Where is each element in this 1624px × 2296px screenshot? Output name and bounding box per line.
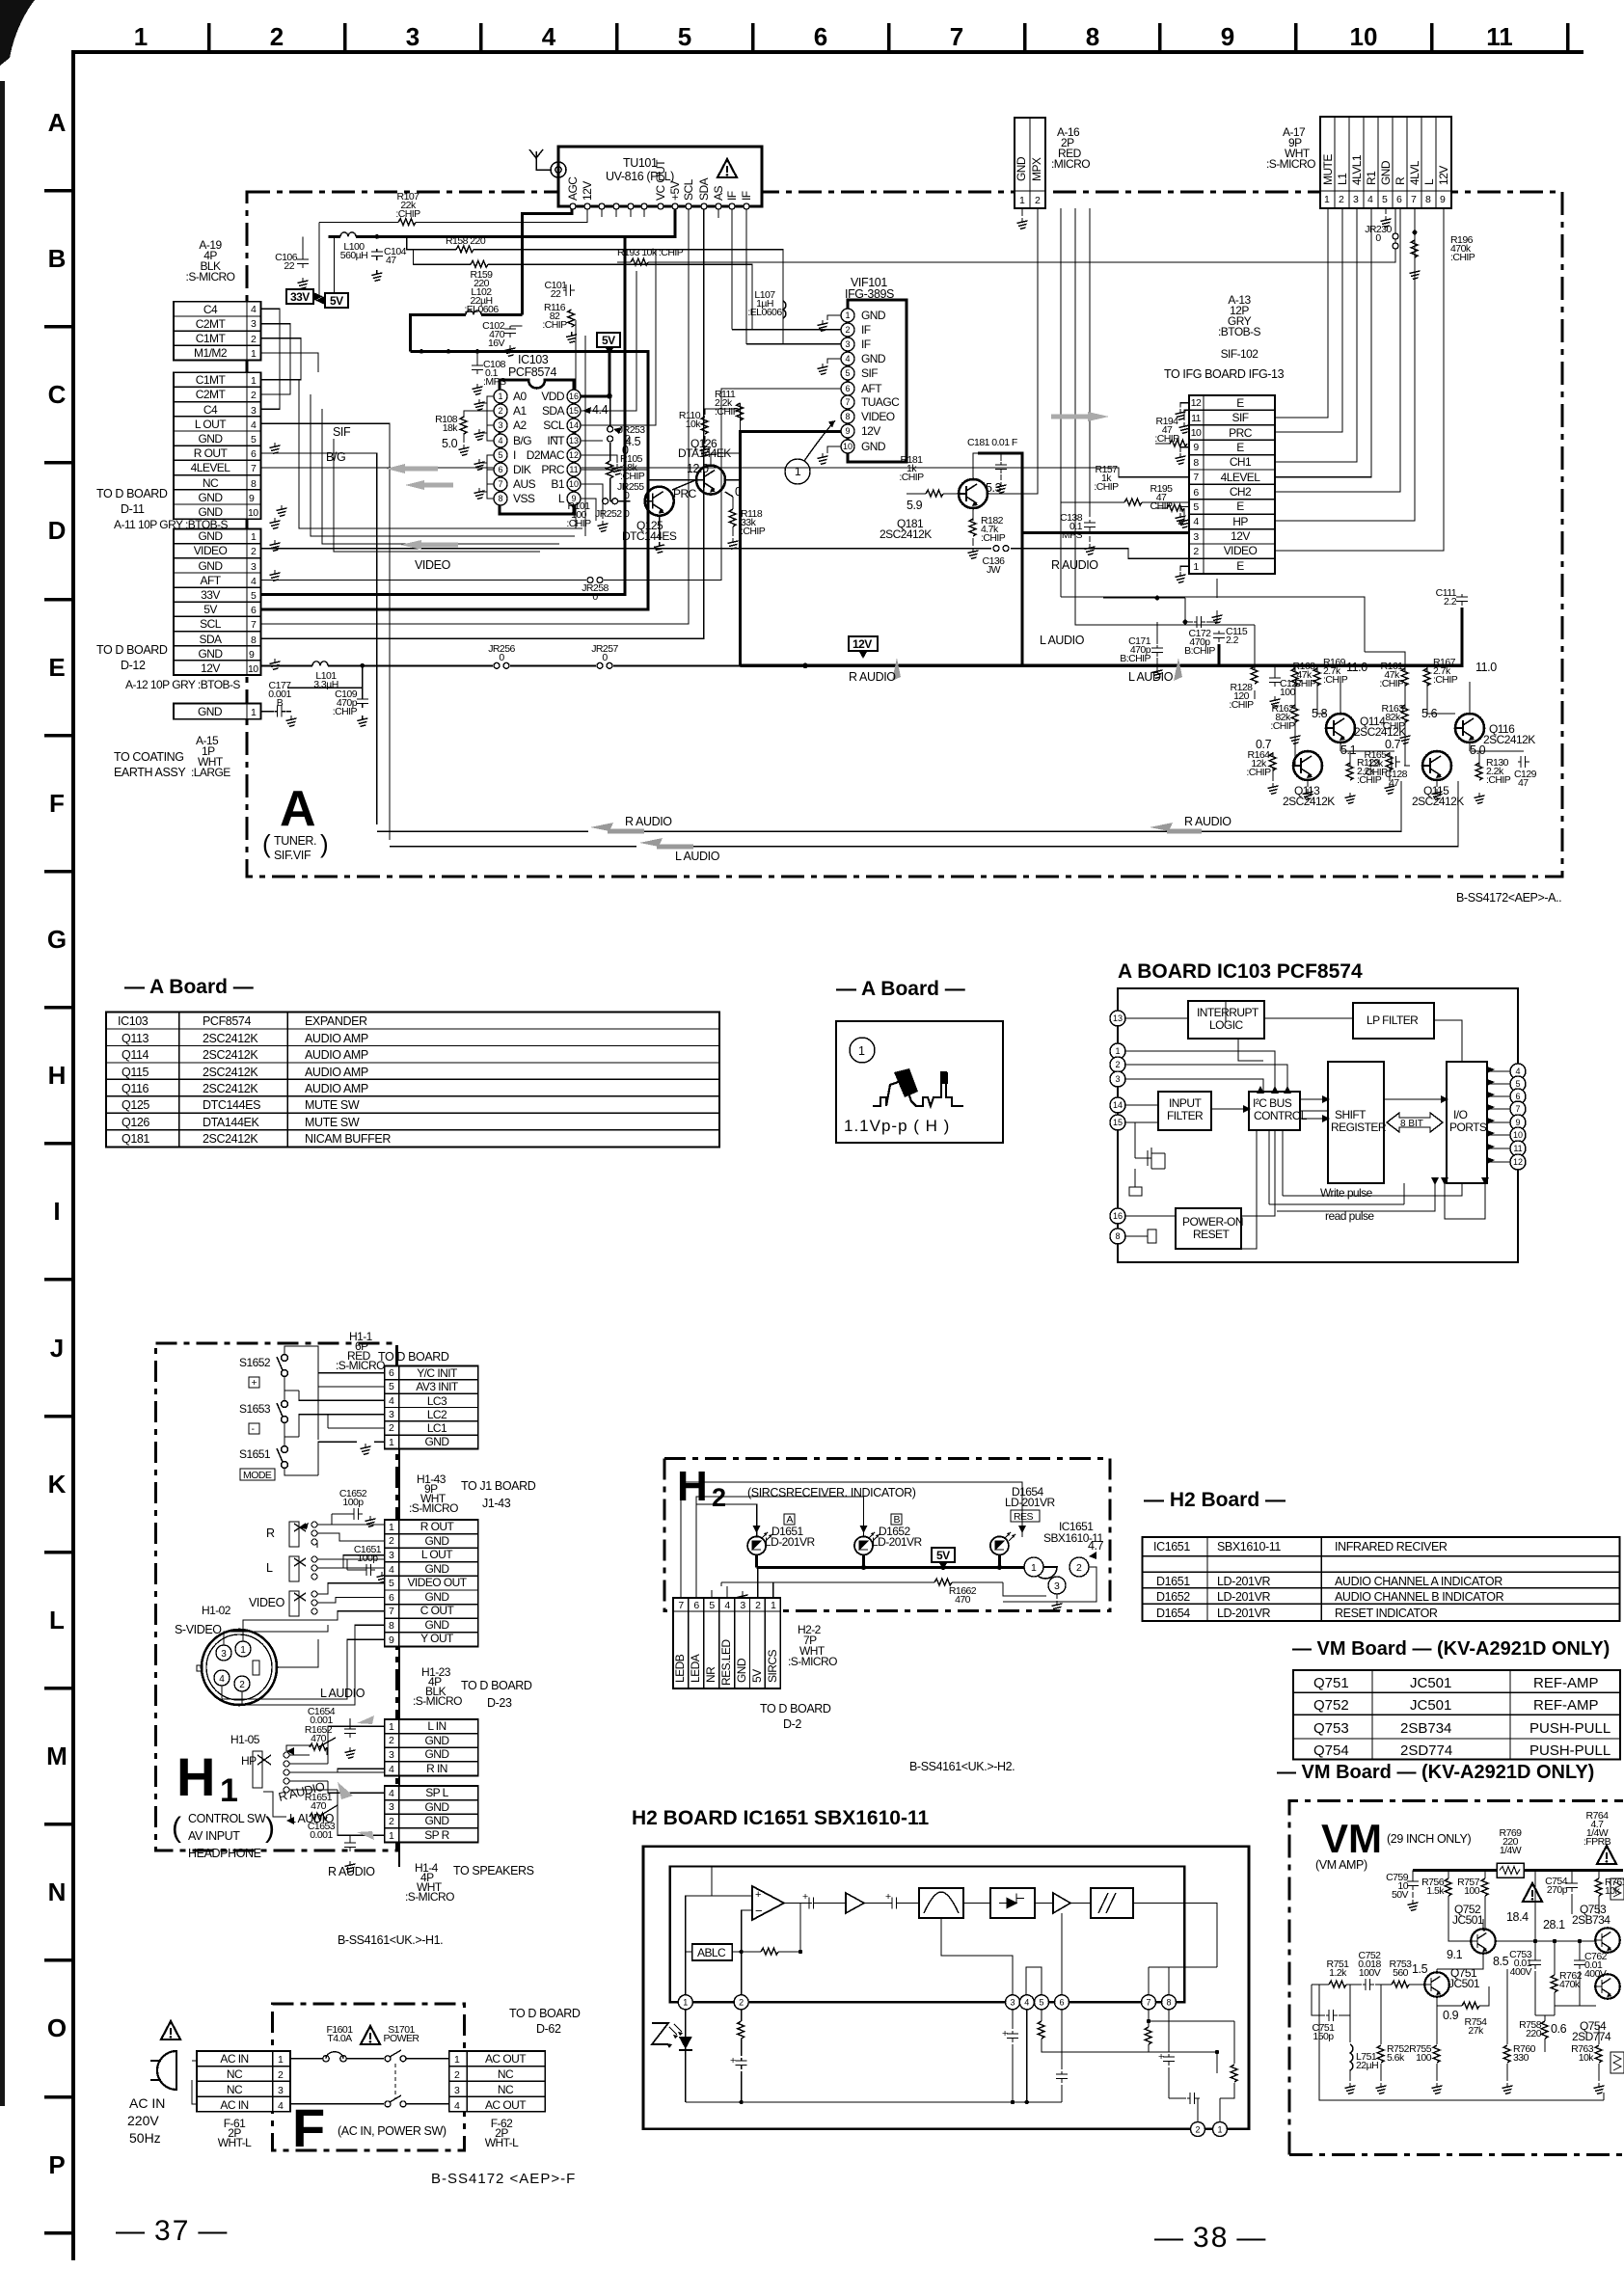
svg-text:IC103: IC103 [518,353,549,366]
svg-text:2: 2 [1339,194,1344,205]
wire R OUT return [261,453,588,831]
svg-text:100p: 100p [342,1497,364,1508]
svg-text:TO D BOARD: TO D BOARD [509,2007,581,2020]
svg-text:7: 7 [1411,194,1417,205]
svg-text:D-12: D-12 [121,659,146,672]
svg-text:E: E [1236,559,1244,573]
wire R audio return [629,781,1401,831]
svg-text:A-12 10P GRY :BTOB-S: A-12 10P GRY :BTOB-S [125,678,240,691]
svg-text:EXPANDER: EXPANDER [305,1014,367,1028]
grey signal SIF arrow [1051,412,1109,421]
svg-text:GND: GND [861,309,886,322]
connector SP stack [385,1786,478,1842]
svg-text:DTC144ES: DTC144ES [203,1098,260,1112]
svg-text:4: 4 [389,1764,394,1775]
svg-text:2: 2 [739,1998,744,2008]
svg-text:4: 4 [389,1395,394,1407]
connector A-17 [1320,117,1451,208]
svg-text:LEDB: LEDB [673,1654,687,1683]
wire PRC ladder [1275,208,1342,432]
svg-text:4LVL1: 4LVL1 [1350,154,1364,185]
svg-text::CHIP: :CHIP [741,526,766,537]
svg-text:A2: A2 [513,419,527,432]
svg-text:2SC2412K: 2SC2412K [203,1082,258,1095]
svg-text:TO IFG BOARD IFG-13: TO IFG BOARD IFG-13 [1164,367,1285,381]
svg-text:1: 1 [845,311,850,320]
svg-text:1: 1 [1217,2125,1222,2135]
svg-text:GND: GND [861,352,886,365]
svg-text:LP FILTER: LP FILTER [1367,1013,1419,1027]
svg-text:O: O [47,2013,67,2042]
svg-text:CH1: CH1 [1230,455,1252,469]
svg-text::S-MICRO: :S-MICRO [405,1890,454,1904]
svg-text:B:CHIP: B:CHIP [1120,653,1150,664]
wire AFT run [261,389,841,581]
wire 5V left riser [334,236,336,293]
connector H1-1 stack [385,1366,478,1449]
svg-text:8: 8 [389,1620,394,1632]
svg-text:SHIFT: SHIFT [1335,1108,1367,1121]
svg-text:E: E [1236,396,1244,410]
transistor Q115 [1422,751,1451,780]
svg-text:8: 8 [1086,22,1099,51]
IC1651 pins [678,1995,1176,2010]
svg-text:5: 5 [709,1600,715,1611]
wire NR line [1061,208,1103,597]
svg-text:JW: JW [987,564,1001,576]
svg-text:100p: 100p [357,1553,378,1564]
svg-text:R IN: R IN [426,1762,447,1775]
resistor R169 [1313,668,1320,686]
capacitor C759 [1412,1871,1414,1899]
svg-text:LEDA: LEDA [689,1654,702,1683]
svg-text::CHIP: :CHIP [1246,767,1271,778]
capacitor C128 [1389,756,1400,768]
buffer amp 1 [846,1893,864,1913]
svg-text:3: 3 [845,339,850,349]
wire R157 run [1061,502,1189,542]
svg-text:IF: IF [740,191,753,201]
svg-text:G: G [47,925,67,954]
svg-text:H2 BOARD IC1651 SBX1610-11: H2 BOARD IC1651 SBX1610-11 [632,1807,929,1829]
svg-text:JC501: JC501 [1410,1675,1451,1691]
svg-text:GND: GND [198,432,223,446]
svg-text:Q115: Q115 [122,1066,149,1079]
svg-text:400V: 400V [1510,1966,1532,1978]
badge 33V [286,289,313,304]
svg-text:15: 15 [569,406,579,416]
svg-text:D1652: D1652 [1156,1590,1190,1604]
led D1652 [854,1536,873,1554]
svg-text:9: 9 [845,426,850,436]
resistor R161 [1401,668,1408,686]
svg-text:NC: NC [227,2083,243,2096]
svg-text:12V: 12V [1231,529,1250,543]
svg-text:3: 3 [389,1749,394,1761]
resistor R111 [737,403,744,420]
resistor R196 [1411,240,1418,257]
svg-text:AUDIO AMP: AUDIO AMP [305,1032,368,1045]
svg-text:D-62: D-62 [536,2022,561,2036]
wire control bundle 2 [311,394,575,536]
svg-text:R AUDIO: R AUDIO [849,670,896,684]
resistor R757 [1484,1871,1486,1931]
svg-text:0: 0 [592,591,598,603]
capacitor C1653 [308,1821,336,1841]
wire audio feeds [1075,208,1255,659]
svg-text::S-MICRO: :S-MICRO [409,1501,458,1515]
svg-text:GND: GND [424,1734,449,1747]
wire AGC feed [523,206,572,314]
svg-text:3: 3 [221,1649,227,1660]
svg-text:8: 8 [845,412,850,421]
svg-text:3: 3 [454,2085,460,2096]
connector A-15 [174,704,261,719]
switch S1701 pole2 [290,2103,384,2105]
svg-text:7: 7 [1193,472,1199,483]
svg-text:5V: 5V [602,334,615,347]
connector H1-43 stack [385,1520,478,1646]
svg-text:2: 2 [389,1422,394,1434]
wire R118 drop [725,492,733,536]
svg-text:6: 6 [814,22,827,51]
svg-text:2: 2 [1193,546,1199,557]
svg-text:2SB734: 2SB734 [1572,1913,1610,1927]
svg-text:SIF: SIF [861,366,878,380]
VM dashed border [1289,1800,1623,2154]
svg-text:2: 2 [498,406,502,416]
svg-text:6: 6 [693,1600,699,1611]
svg-text:C181 0.01 F: C181 0.01 F [967,437,1017,448]
audio right wires [1390,665,1524,787]
wire 12V to A-13 [1022,531,1189,534]
svg-text:VIDEO: VIDEO [861,410,895,423]
svg-text:470: 470 [311,1800,327,1812]
coupling cap 2 [889,1898,901,1909]
svg-text:4: 4 [389,1564,394,1576]
svg-text:E: E [1236,500,1244,513]
svg-text:10k: 10k [1579,2052,1595,2064]
svg-text:+5V: +5V [668,180,682,201]
svg-text:B: B [48,244,67,273]
svg-text:R158 220: R158 220 [446,235,486,247]
svg-text:VSS: VSS [513,492,535,505]
pin3 cap [1012,2010,1014,2102]
ruler top line [71,50,1583,54]
svg-text::CHIP: :CHIP [1363,767,1388,778]
bandpass box [919,1888,963,1918]
resistor R162 [1291,705,1298,722]
svg-text:1.2k: 1.2k [1329,1967,1347,1979]
svg-text::CHIP: :CHIP [333,706,358,717]
svg-text:−: − [755,1904,763,1918]
svg-text:SP R: SP R [424,1828,449,1842]
svg-text:6: 6 [1193,487,1199,499]
warning triangle VM [1523,1883,1542,1902]
svg-text:AFT: AFT [200,574,221,587]
svg-text:11.0: 11.0 [1475,661,1497,674]
IC103 diagram outer box [1118,988,1518,1262]
svg-text::S-MICRO: :S-MICRO [788,1655,837,1668]
wire C1MT link [261,338,301,380]
connector A-15 label [191,734,230,779]
svg-text:HEADPHONE: HEADPHONE [188,1847,261,1860]
svg-text:5.0: 5.0 [442,437,458,450]
svg-text:9: 9 [1440,194,1446,205]
capacitor C181 [995,462,1007,473]
svg-text:GND: GND [424,1814,449,1827]
resistor R101 [566,500,591,529]
svg-text:Q126: Q126 [122,1116,149,1129]
svg-text:5: 5 [1193,501,1199,513]
capacitor C1654 [308,1706,336,1726]
expander IC103 [500,353,574,514]
feedback resistor [761,1948,778,1955]
svg-text:9: 9 [1515,1118,1520,1127]
svg-text:AUDIO CHANNEL B INDICATOR: AUDIO CHANNEL B INDICATOR [1335,1590,1504,1604]
svg-text:1: 1 [771,1600,776,1611]
svg-text:Write pulse: Write pulse [1320,1186,1373,1200]
svg-text:D1654: D1654 [1156,1607,1190,1620]
svg-text:J: J [50,1334,64,1363]
wire IF to VIF pins [746,299,841,344]
shift register box [1328,1062,1384,1183]
capacitor C172 [1194,616,1205,628]
IC1651 internal wires [686,1866,1217,1995]
svg-text:B-SS4161<UK.>-H2.: B-SS4161<UK.>-H2. [909,1760,1015,1773]
svg-text:9: 9 [249,649,255,661]
svg-text:4LEVEL: 4LEVEL [1221,471,1261,484]
svg-text:NICAM BUFFER: NICAM BUFFER [305,1132,391,1146]
resistor R164 [1269,753,1276,770]
svg-text:GND: GND [424,1747,449,1761]
svg-text:NC: NC [498,2067,514,2081]
svg-text:2SB734: 2SB734 [1400,1720,1451,1737]
pin7 network [1149,2010,1234,2083]
svg-text:CHIP: CHIP [1150,500,1173,512]
svg-text:L AUDIO: L AUDIO [1040,634,1085,647]
wire main B+ run [329,209,675,236]
wire C177 run [261,665,363,711]
coupling cap 1 [806,1898,818,1909]
svg-text:10: 10 [843,442,853,451]
svg-text:13: 13 [569,436,579,446]
resistor R130 [1475,763,1482,780]
svg-text:— 38 —: — 38 — [1154,2222,1267,2254]
resistor R159 [471,260,488,267]
svg-text:D: D [48,516,67,545]
antenna connector [551,162,566,177]
svg-text:P: P [48,2150,65,2179]
svg-text:PCF8574: PCF8574 [203,1014,251,1028]
resistor R755 [1433,2045,1440,2063]
wire Q125 collector [659,516,661,540]
transistor Q752 [1471,1929,1496,1954]
svg-text:D2MAC: D2MAC [527,448,565,462]
svg-text:470: 470 [311,1733,327,1744]
VM input chain [1312,1984,1425,1985]
wire 5V bus [411,351,609,395]
svg-text:M: M [46,1742,68,1770]
wire Q181 base [907,493,961,495]
capacitor C102 [511,325,523,327]
IC103 pin names [513,390,536,505]
svg-text:7: 7 [498,479,502,489]
wire CH2 ladder [1275,208,1400,492]
badge 12V [849,636,878,651]
svg-text:B-SS4172<AEP>-A..: B-SS4172<AEP>-A.. [1456,891,1561,905]
H2 5V bus [757,1554,1024,1567]
svg-text:1: 1 [389,1721,394,1733]
svg-text:12.0: 12.0 [687,462,709,475]
svg-text:4LEVEL: 4LEVEL [191,461,231,474]
svg-text:7: 7 [950,22,963,51]
svg-text:R AUDIO: R AUDIO [1051,558,1098,572]
svg-text:(: ( [172,1812,181,1844]
switch link dashed [394,2064,396,2098]
svg-text:3: 3 [1054,1580,1060,1592]
svg-text:L: L [49,1606,65,1634]
wire Q125 PRC link [672,480,696,490]
svg-text:L AUDIO: L AUDIO [320,1687,365,1700]
H2 Board table [1143,1537,1620,1621]
svg-text:2: 2 [239,1680,245,1690]
resistor R157 [1124,499,1142,505]
inductor L101 [312,662,328,666]
resistor R760 [1506,1969,1508,2081]
transistor Q125 [645,487,674,516]
svg-text:4: 4 [454,2100,460,2112]
tuner TU101 [558,147,762,206]
svg-text:AUDIO AMP: AUDIO AMP [305,1066,368,1079]
svg-text:1: 1 [795,465,801,478]
svg-text:0: 0 [602,652,608,663]
svg-text:1: 1 [251,707,257,718]
capacitor C108 [472,363,483,374]
svg-text::CHIP: :CHIP [1154,433,1179,445]
svg-text:B: B [277,697,284,709]
wire SCL run [261,209,689,624]
grey arrows audio right [892,658,1182,681]
svg-text:7: 7 [251,619,257,631]
svg-text:22: 22 [551,288,561,300]
svg-text:H1-05: H1-05 [230,1733,260,1746]
svg-text:read pulse: read pulse [1325,1209,1374,1223]
svg-text:S-VIDEO: S-VIDEO [175,1623,222,1636]
svg-text::S-MICRO: :S-MICRO [1266,157,1315,171]
inductor L751 [1349,2015,1351,2081]
svg-text:1: 1 [683,1998,688,2008]
svg-text:100: 100 [1416,2052,1432,2064]
Q752 link [1437,1919,1483,1974]
svg-text:— A Board —: — A Board — [124,976,254,998]
svg-text:SIRCS: SIRCS [766,1650,779,1683]
svg-text:5V: 5V [936,1549,950,1562]
resistor R167 [1423,668,1430,686]
svg-text::MPS: :MPS [1060,529,1083,541]
svg-text:27k: 27k [1468,2025,1484,2037]
svg-text:16V: 16V [488,338,505,349]
boxed resistor top [1610,1878,1624,1900]
svg-text:1: 1 [134,22,148,51]
svg-text:I/O: I/O [1453,1108,1468,1121]
svg-text:VIDEO: VIDEO [1224,544,1258,557]
grey arrows H1 [338,1715,374,1840]
svg-text:50V: 50V [1392,1889,1409,1901]
power-on reset box [1176,1208,1241,1249]
wire SCL pin14 [581,250,656,425]
svg-text:— VM Board — (KV-A2921D ONLY): — VM Board — (KV-A2921D ONLY) [1277,1762,1594,1783]
svg-text:JC501: JC501 [1410,1697,1451,1714]
svg-text:3: 3 [251,405,257,417]
svg-text::CHIP: :CHIP [1486,774,1511,786]
svg-text:CH2: CH2 [1230,485,1252,499]
wire Q126 top [711,453,741,466]
svg-text:M1/M2: M1/M2 [194,346,228,360]
connector A-13 label [1218,293,1260,361]
svg-text::MICRO: :MICRO [1051,157,1090,171]
resistor R128 [1251,666,1258,684]
led D1651 [747,1536,766,1554]
svg-text:LOGIC: LOGIC [1209,1018,1243,1032]
wire JR253 chain [610,396,631,501]
wire L ladder [1275,208,1444,551]
ground A16 [1017,218,1028,229]
svg-text:11: 11 [1191,413,1202,424]
svg-text:2: 2 [251,390,257,401]
svg-text:5: 5 [1039,1998,1043,2008]
detector box [990,1888,1035,1918]
svg-text:4: 4 [251,576,257,587]
ABLC box [692,1944,733,1960]
jumper JR257 [597,662,612,668]
input filter box [1158,1092,1211,1130]
VIF101 pins [841,309,854,453]
wire control bundle 3 [322,409,559,544]
svg-text:SDA: SDA [697,177,711,201]
svg-text:I²C BUS: I²C BUS [1253,1096,1292,1110]
svg-text:470k: 470k [1559,1979,1581,1990]
svg-text:2SD774: 2SD774 [1400,1742,1452,1759]
resistor R193 [631,258,648,265]
svg-text:2SC2412K: 2SC2412K [203,1048,258,1062]
svg-text:1: 1 [454,2054,460,2066]
svg-text:3: 3 [498,420,502,430]
svg-text:560µH: 560µH [340,250,367,261]
svg-text::CHIP: :CHIP [899,472,924,483]
svg-text::CHIP: :CHIP [1094,481,1119,493]
right resistor [1231,2065,1237,2082]
svg-text:WHT-L: WHT-L [218,2136,252,2149]
wire C4 link [261,309,280,409]
svg-text:PUSH-PULL: PUSH-PULL [1529,1742,1610,1759]
svg-text:14: 14 [569,420,579,430]
svg-text:1: 1 [389,1830,394,1842]
wire 33V thick run [261,236,625,594]
A Board parts table [106,1013,719,1148]
svg-text:+: + [802,1891,808,1903]
wire SDA pin15 [581,271,636,411]
svg-text:9.1: 9.1 [1447,1948,1463,1961]
svg-text:MUTE SW: MUTE SW [305,1098,360,1112]
svg-text:R: R [1394,176,1407,185]
resistor R764 [1583,1810,1611,1848]
svg-text:2.2: 2.2 [1226,635,1239,646]
svg-text:2: 2 [1076,1562,1082,1574]
svg-text:B/G: B/G [513,434,531,447]
svg-text::CHIP: :CHIP [1323,674,1348,686]
svg-text:AUDIO AMP: AUDIO AMP [305,1048,368,1062]
